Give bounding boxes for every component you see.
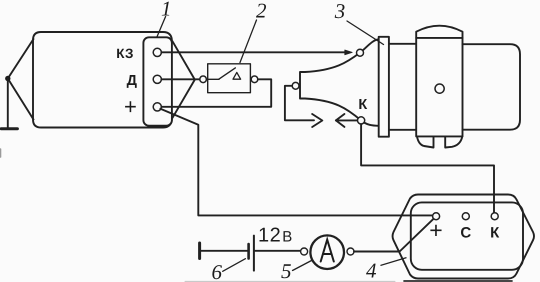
- bell terminal node: [292, 82, 299, 89]
- leader line 6: [223, 259, 246, 272]
- starter terminal К: [358, 117, 365, 124]
- node at generator nose: [5, 76, 10, 81]
- terminal КЗ: [153, 48, 161, 56]
- scan artifact bottom edge: [185, 280, 395, 282]
- arrowhead right: [345, 50, 352, 55]
- svg-text:1: 1: [161, 0, 172, 21]
- svg-text:К: К: [490, 225, 500, 242]
- wire Д to switch: [161, 78, 200, 80]
- switch contact triangle: [233, 72, 241, 79]
- starter neck section: [389, 44, 416, 130]
- arrowhead left at gap: [336, 114, 345, 127]
- wire ground to battery: [201, 250, 247, 252]
- wire КЗ to starter relay: [161, 51, 349, 53]
- terminal Д: [153, 75, 161, 83]
- svg-text:2: 2: [256, 0, 267, 23]
- svg-text:С: С: [460, 225, 471, 242]
- starter dome cap: [416, 26, 462, 38]
- svg-text:4: 4: [366, 258, 377, 282]
- wire battery to ammeter: [255, 250, 301, 252]
- generator body (component 1): [33, 32, 172, 128]
- ground: [1, 127, 17, 130]
- svg-text:+: +: [124, 94, 137, 119]
- ground lead wire: [7, 79, 9, 128]
- switch blade: [219, 68, 236, 79]
- scan artifact left edge: [0, 149, 2, 157]
- starter right tab: [445, 136, 462, 147]
- battery short plate: [247, 244, 250, 258]
- terminal +: [153, 103, 161, 111]
- leader line 5: [293, 261, 312, 271]
- svg-text:12В: 12В: [258, 225, 293, 247]
- svg-text:КЗ: КЗ: [116, 46, 133, 61]
- wire switch loop down to +: [161, 79, 271, 107]
- starter bell housing: [300, 39, 379, 126]
- label А ammeter: [321, 240, 334, 262]
- switch right terminal: [251, 76, 258, 83]
- svg-text:3: 3: [334, 0, 346, 23]
- regulator terminal К: [491, 213, 498, 220]
- leader line 3: [347, 21, 384, 45]
- ammeter body (component 5): [310, 235, 344, 269]
- regulator inner case: [411, 202, 523, 269]
- starter center band: [416, 38, 462, 136]
- svg-text:Д: Д: [127, 73, 138, 89]
- leader line 1: [157, 17, 166, 38]
- battery ground stub: [198, 243, 201, 259]
- regulator outer shell (component 4): [393, 195, 534, 279]
- svg-text:5: 5: [281, 259, 292, 282]
- terminal block of generator: [143, 37, 172, 125]
- svg-text:6: 6: [212, 260, 223, 282]
- leader line 2: [240, 20, 257, 63]
- ammeter right terminal: [347, 248, 354, 255]
- generator right cone: [173, 41, 195, 118]
- regulator terminal +: [433, 213, 440, 220]
- starter right body: [463, 44, 521, 130]
- switch left terminal: [200, 76, 207, 83]
- starter center bolt: [435, 84, 444, 93]
- starter terminal upper: [357, 49, 364, 56]
- svg-text:К: К: [358, 97, 367, 113]
- generator left cone: [8, 39, 34, 120]
- wire ammeter to regulator +: [354, 219, 433, 251]
- wire + diagonal down: [160, 109, 432, 216]
- starter left tab: [417, 136, 434, 147]
- arrowhead right at gap: [312, 114, 322, 127]
- wire into К terminal: [336, 119, 358, 121]
- leader line 4: [381, 258, 406, 266]
- regulator terminal С: [462, 213, 469, 220]
- wire from bell terminal: [285, 86, 314, 121]
- wire К down to regulator: [361, 124, 494, 212]
- starter flange (component 3): [379, 37, 389, 137]
- svg-text:+: +: [429, 217, 442, 243]
- ammeter left terminal: [301, 248, 308, 255]
- battery long plate (component 6): [253, 236, 255, 271]
- switch lead: [207, 78, 219, 80]
- switch box (component 2): [208, 64, 251, 93]
